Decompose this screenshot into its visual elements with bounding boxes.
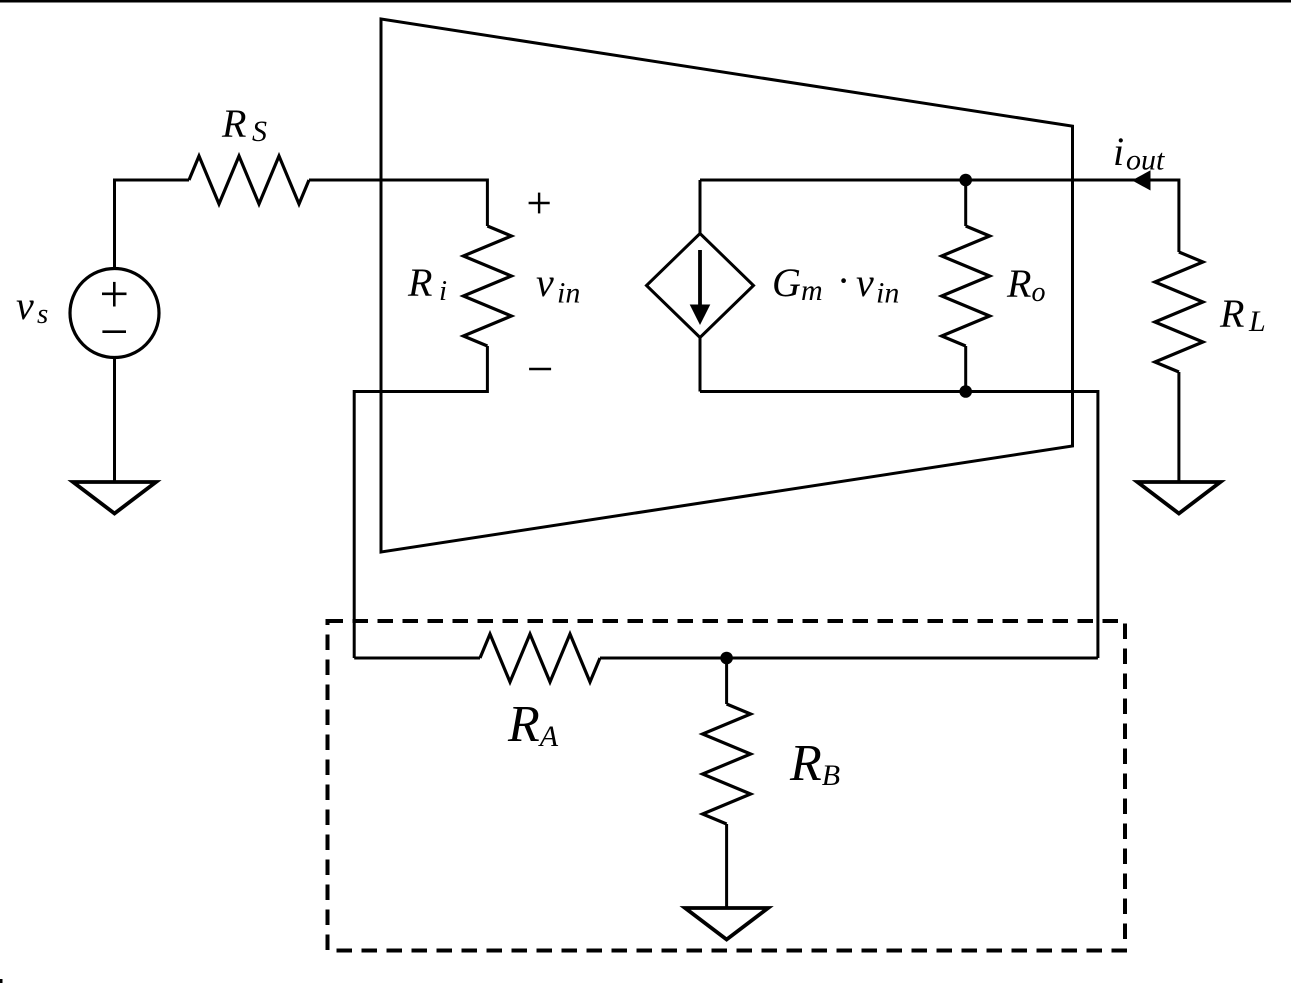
voltage source vs xyxy=(70,269,159,358)
wire vs bottom to ground xyxy=(113,358,116,483)
resistor RA xyxy=(480,634,600,682)
wire vs top to RS xyxy=(115,180,190,269)
svg-text:R: R xyxy=(407,260,432,305)
wire Ri bottom to feedback left drop xyxy=(354,346,487,658)
iout arrowhead xyxy=(1132,170,1151,190)
svg-text:R: R xyxy=(221,101,246,146)
wire diamond top to output node wire xyxy=(699,180,702,234)
wire bottom inner: diamond to feedback right drop xyxy=(700,392,1098,659)
svg-text:L: L xyxy=(1248,305,1266,338)
top border bar xyxy=(0,0,1291,3)
svg-text:i: i xyxy=(439,275,447,307)
wire RL to ground xyxy=(1177,372,1180,482)
svg-text:·: · xyxy=(838,258,848,303)
minus label (vin -) xyxy=(529,368,551,370)
svg-text:S: S xyxy=(252,115,267,148)
node top (Ro/output) xyxy=(959,174,972,187)
svg-text:v: v xyxy=(856,260,874,305)
resistor RB xyxy=(703,704,751,824)
wire diamond bottom xyxy=(699,338,702,392)
svg-text:in: in xyxy=(876,277,899,310)
dependent current source Gm*vin (diamond) xyxy=(647,234,754,338)
wire node to RB xyxy=(725,658,728,704)
svg-text:i: i xyxy=(1113,129,1124,174)
svg-text:s: s xyxy=(37,298,48,330)
feedback wire right segment xyxy=(600,657,1098,660)
svg-text:v: v xyxy=(16,283,34,328)
feedback wire left segment xyxy=(354,657,480,660)
resistor RL xyxy=(1155,252,1203,372)
svg-text:m: m xyxy=(801,274,823,307)
op-amp U1 (amplifier trapezoid) xyxy=(381,19,1073,552)
svg-text:R: R xyxy=(1219,291,1244,336)
node bottom (Ro/output) xyxy=(959,385,972,398)
wire top inner: diamond to RL corner xyxy=(700,180,1179,252)
ground (RB) xyxy=(685,908,768,940)
svg-text:out: out xyxy=(1126,144,1165,177)
wire RB to ground xyxy=(725,824,728,908)
ground (RL) xyxy=(1137,482,1220,514)
svg-text:in: in xyxy=(557,277,580,310)
feedback network dashed box xyxy=(328,621,1126,951)
svg-text:v: v xyxy=(536,260,554,305)
wire RS to Ri top xyxy=(309,180,487,226)
resistor RS xyxy=(189,156,309,204)
resistor Ri xyxy=(463,226,511,346)
resistor Ro xyxy=(942,180,990,392)
bottom-left corner mark xyxy=(0,979,3,983)
svg-text:G: G xyxy=(772,260,801,305)
ground (vs) xyxy=(73,482,156,514)
node feedback (RA/RB junction) xyxy=(720,652,733,665)
plus label (vin +) xyxy=(529,193,550,214)
